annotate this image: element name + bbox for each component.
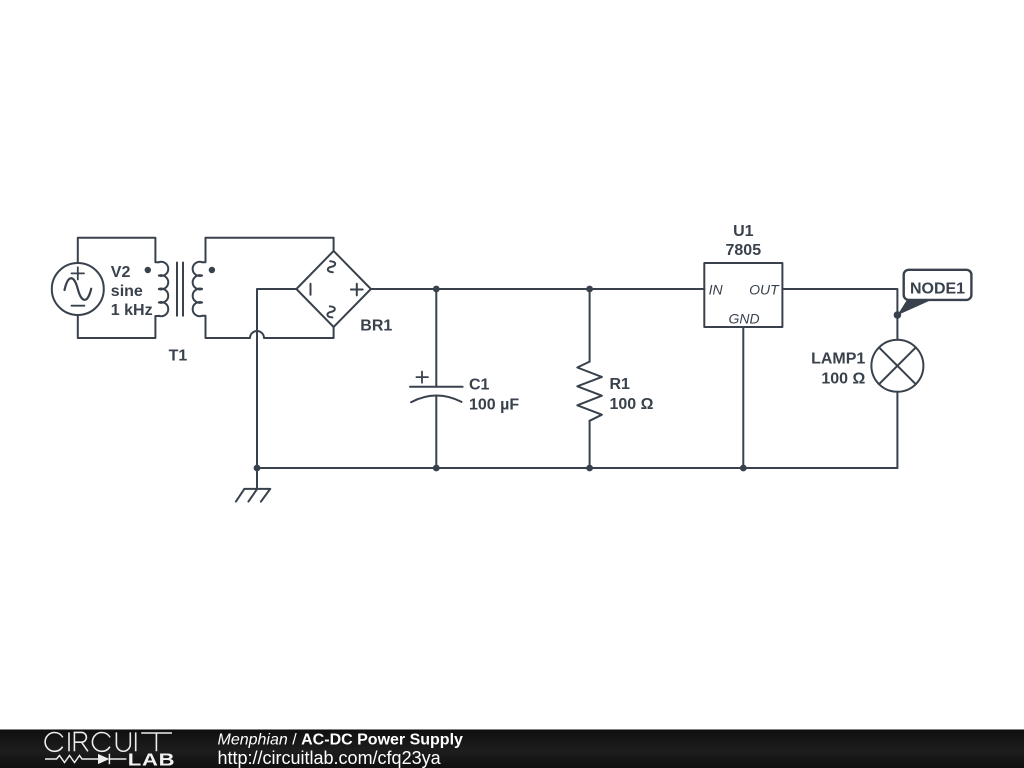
svg-text:100 µF: 100 µF [469, 396, 519, 413]
logo resistor squiggle [45, 756, 98, 763]
BR1 plus pin mark [351, 284, 363, 296]
junction ground node [254, 465, 261, 472]
svg-text:LAMP1: LAMP1 [811, 351, 865, 368]
junction NODE1 node [894, 311, 902, 319]
svg-text:U1: U1 [733, 223, 754, 240]
svg-text:R1: R1 [610, 376, 631, 393]
svg-text:T1: T1 [169, 347, 188, 364]
BR1 ac tilde bottom [327, 306, 334, 317]
svg-text:http://circuitlab.com/cfq23ya: http://circuitlab.com/cfq23ya [218, 748, 442, 768]
BR1 minus pin mark [310, 284, 312, 295]
svg-text:Menphian / AC-DC Power Supply: Menphian / AC-DC Power Supply [218, 732, 464, 749]
svg-text:V2: V2 [111, 264, 131, 281]
logo letter R [74, 732, 88, 751]
wire T1 secondary bottom to bridge bottom pin (hop over ground wire) [202, 316, 334, 338]
transformer T1 secondary winding [193, 262, 202, 316]
wire C1 top lead [435, 289, 437, 387]
wire V2 bottom to T1 primary bottom [78, 315, 159, 338]
svg-text:100 Ω: 100 Ω [821, 371, 865, 388]
junction C1 top node [433, 286, 440, 293]
wire lamp bottom lead [896, 392, 898, 468]
T1 primary phase dot [145, 267, 151, 273]
wire R1 top lead [589, 289, 591, 362]
svg-text:7805: 7805 [726, 242, 762, 259]
wire U1 OUT to lamp top (node NODE1) [782, 289, 897, 340]
footer bar [0, 729, 1024, 768]
logo letter U [116, 732, 130, 751]
NODE1 flag pointer tail [897, 299, 933, 315]
junction R1 bottom node [586, 465, 593, 472]
logo letter C [45, 733, 64, 752]
ground symbol [236, 468, 270, 502]
T1 secondary phase dot [209, 267, 215, 273]
svg-text:NODE1: NODE1 [910, 281, 965, 298]
svg-text:BR1: BR1 [360, 317, 392, 334]
capacitor C1 bottom curved plate [411, 396, 462, 403]
transformer T1 primary winding [159, 262, 168, 316]
svg-text:GND: GND [728, 310, 759, 326]
logo letter C [92, 733, 111, 752]
wire bridge plus pin to U1 IN (positive rail) [371, 288, 704, 290]
node NODE1 flag box [904, 270, 972, 300]
svg-text:1 kHz: 1 kHz [111, 302, 153, 319]
logo letter I [135, 732, 137, 751]
lamp LAMP1 (circle with X) [871, 340, 923, 392]
svg-text:LAB: LAB [128, 751, 176, 768]
logo diode cathode and lead [109, 754, 126, 764]
wire U1 GND pin down to ground rail [742, 327, 744, 468]
capacitor C1 polarity plus mark [416, 372, 428, 383]
wire C1 bottom lead [435, 396, 437, 468]
svg-text:IN: IN [709, 282, 724, 298]
logo letter I [68, 732, 70, 751]
wire ground rail [257, 467, 897, 469]
bridge rectifier BR1 diamond [296, 251, 371, 327]
voltage regulator U1 box [704, 263, 782, 327]
capacitor C1 top plate [410, 386, 463, 388]
transformer T1 core [177, 263, 183, 316]
wire bridge minus pin to ground wire [257, 289, 296, 468]
svg-text:sine: sine [111, 283, 143, 300]
junction U1 GND node [740, 465, 747, 472]
wire R1 bottom lead [589, 421, 591, 468]
junction R1 top node [586, 286, 593, 293]
voltage source V2 (circle with sine) [52, 263, 104, 315]
svg-text:C1: C1 [469, 376, 490, 393]
svg-text:OUT: OUT [749, 282, 780, 298]
resistor R1 zigzag [577, 362, 602, 421]
wire T1 secondary top to bridge top pin [202, 238, 334, 263]
wire V2 top to T1 primary top [78, 238, 159, 263]
logo letter T [141, 733, 172, 751]
logo diode triangle [98, 754, 109, 764]
BR1 ac tilde top [328, 261, 335, 272]
svg-text:100 Ω: 100 Ω [610, 396, 654, 413]
junction C1 bottom node [433, 465, 440, 472]
